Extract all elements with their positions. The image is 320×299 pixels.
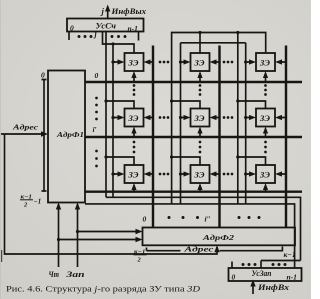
wire УсЗап top bus bbox=[261, 260, 301, 262]
svg-text:ЗЭ: ЗЭ bbox=[259, 57, 270, 67]
svg-text:ЗЭ: ЗЭ bbox=[193, 169, 204, 179]
svg-text:Зап: Зап bbox=[65, 270, 85, 279]
wire sense bus1 top with end corners bbox=[172, 33, 266, 204]
ellipsis dots row2 between columns bbox=[159, 116, 162, 119]
svg-text:0: 0 bbox=[41, 71, 45, 80]
svg-text:ЗЭ: ЗЭ bbox=[193, 57, 204, 67]
wire jog row2 col1 bbox=[106, 101, 134, 109]
bit line Y last from АдрФ2 bbox=[285, 46, 287, 228]
svg-text:i′: i′ bbox=[93, 125, 97, 134]
arrowheads into cell left edges bbox=[118, 59, 125, 176]
vertical ellipsis АдрФ1 outputs 2 bbox=[95, 150, 98, 153]
scan artifact left edge line bbox=[0, 0, 1, 299]
wire jog row3 col3 bbox=[238, 157, 266, 165]
bracket АдрФ2 outputs left segment bbox=[147, 248, 181, 251]
svg-text:ЗЭ: ЗЭ bbox=[259, 113, 270, 123]
junction dots left feeders row2 bbox=[111, 116, 114, 119]
wire sense j-line from УсСч down to collector A bbox=[105, 32, 107, 198]
svg-text:ЗЭ: ЗЭ bbox=[127, 113, 138, 123]
wire right arrow stems into cells bbox=[150, 62, 153, 174]
svg-text:n-1: n-1 bbox=[128, 24, 138, 33]
ellipsis dots row3 between columns bbox=[159, 173, 162, 176]
svg-text:Рис. 4.6. Структура j-го разря: Рис. 4.6. Структура j-го разряда ЗУ типа… bbox=[6, 284, 200, 293]
arrowhead Чт branch into АдрФ2 bbox=[136, 237, 143, 242]
word line Xi' from АдрФ1 bbox=[85, 136, 302, 138]
wire left arrow stems into cells bbox=[113, 62, 118, 174]
stub j over УсЗап bbox=[260, 261, 262, 269]
storage cell ЗЭ r1c3 bbox=[256, 53, 275, 71]
arrowhead ИнфВых bbox=[105, 5, 110, 12]
wire Адрес input to АдрФ1 and branch to АдрФ2 bbox=[0, 134, 217, 254]
arrow ИнфВх stem bbox=[252, 282, 254, 294]
vertical ellipsis between row1 and row2 bbox=[133, 84, 136, 87]
vertical ellipsis between row2 and row3 bbox=[133, 141, 136, 144]
wire collector A to УсЗап bbox=[106, 197, 301, 260]
storage cell ЗЭ r1c1 bbox=[125, 53, 144, 71]
bit line Yi'' from АдрФ2 bbox=[218, 46, 220, 228]
svg-text:−1: −1 bbox=[34, 198, 42, 206]
arrowheads into cell right edges bbox=[144, 59, 151, 176]
junction dots jogs row3 bbox=[104, 155, 107, 158]
ellipsis dots under УсСч bbox=[78, 35, 81, 38]
svg-text:УсСч: УсСч bbox=[96, 21, 117, 31]
word line X0 from АдрФ1 bbox=[85, 81, 302, 83]
arrowhead Зап branch into АдрФ2 bbox=[136, 229, 143, 234]
wire Чт branch to АдрФ2 bbox=[59, 239, 140, 241]
junction dots left feeders row1 bbox=[111, 60, 114, 63]
junction dots jogs row2 bbox=[104, 99, 107, 102]
svg-text:УсЗап: УсЗап bbox=[252, 269, 273, 278]
svg-text:ИнфВх: ИнфВх bbox=[257, 283, 289, 292]
wire jog row3 col2 bbox=[172, 157, 200, 165]
svg-text:0: 0 bbox=[95, 71, 99, 80]
svg-text:0: 0 bbox=[232, 273, 236, 282]
svg-text:к−1: к−1 bbox=[284, 250, 296, 259]
svg-text:2: 2 bbox=[23, 202, 28, 209]
svg-text:2: 2 bbox=[137, 257, 142, 264]
wire Зап stem to АдрФ1 bbox=[77, 204, 79, 267]
svg-text:Чт: Чт bbox=[49, 270, 60, 279]
wire collector B from АдрФ1 corner to УсЗап bbox=[85, 204, 295, 268]
stub 0 under УсСч bbox=[68, 32, 70, 41]
svg-text:Адрес: Адрес bbox=[12, 123, 39, 132]
arrowheads into cell bottoms row3 bbox=[131, 183, 268, 190]
wire bottom arrow stems into cells bbox=[134, 78, 266, 83]
svg-text:n-1: n-1 bbox=[287, 273, 297, 282]
box АдрФ1 bbox=[48, 71, 85, 203]
storage cell ЗЭ r2c2 bbox=[191, 109, 210, 127]
arrowhead ИнфВх bbox=[250, 280, 255, 287]
arrowheads into cell bottoms row1 bbox=[131, 71, 268, 78]
wire left feeder column 3 bbox=[245, 43, 247, 204]
svg-text:j: j bbox=[100, 6, 105, 16]
svg-text:ЗЭ: ЗЭ bbox=[127, 169, 138, 179]
storage cell ЗЭ r1c2 bbox=[191, 53, 210, 71]
storage cell ЗЭ r2c1 bbox=[125, 109, 144, 127]
arrowhead Адрес into АдрФ1 bbox=[41, 131, 48, 136]
ellipsis dots above УсЗап bbox=[242, 263, 245, 266]
ellipsis dots row1 between columns bbox=[159, 61, 162, 64]
wire sense bus2 top bbox=[181, 42, 246, 44]
wire jog row2 col2 bbox=[172, 101, 200, 109]
svg-text:Адрес: Адрес bbox=[183, 245, 215, 254]
box АдрФ2 bbox=[143, 228, 296, 246]
svg-text:ЗЭ: ЗЭ bbox=[127, 57, 138, 67]
svg-text:ИнфВых: ИнфВых bbox=[110, 7, 146, 16]
arrowhead Адрес into АдрФ2 bbox=[214, 245, 219, 252]
wire Чт stem to АдрФ1 bbox=[58, 204, 60, 267]
scan artifact left edge blob bbox=[0, 250, 2, 262]
junction dot feeder col1 top bbox=[111, 42, 114, 45]
vertical ellipsis АдрФ1 outputs 1 bbox=[95, 97, 98, 100]
box УсЗап bbox=[229, 268, 302, 281]
svg-text:ЗЭ: ЗЭ bbox=[193, 113, 204, 123]
box U-sense УсСч bbox=[67, 19, 144, 32]
word line X last from АдрФ1 bbox=[85, 190, 302, 192]
svg-text:ЗЭ: ЗЭ bbox=[259, 169, 270, 179]
arrowheads into cell bottoms row2 bbox=[131, 127, 268, 134]
bracket АдрФ1 outputs bbox=[42, 80, 47, 192]
junction dots left feeders row3 bbox=[111, 172, 114, 175]
storage cell ЗЭ r2c3 bbox=[256, 109, 275, 127]
wire jog row2 col3 bbox=[238, 101, 266, 109]
svg-text:0: 0 bbox=[70, 24, 74, 33]
junction dots on bus1 bbox=[198, 31, 201, 34]
wire sense descender mid bbox=[237, 33, 239, 204]
bit line Y0 from АдрФ2 bbox=[152, 46, 154, 228]
arrowhead Зап into АдрФ1 bbox=[75, 203, 80, 210]
wire jog row3 col1 bbox=[106, 157, 134, 165]
svg-text:АдрФ2: АдрФ2 bbox=[202, 233, 235, 242]
storage cell ЗЭ r3c2 bbox=[191, 165, 210, 183]
arrow ИнфВых stem bbox=[107, 8, 109, 19]
storage cell ЗЭ r3c1 bbox=[125, 165, 144, 183]
svg-text:0: 0 bbox=[143, 215, 147, 224]
svg-text:АдрФ1: АдрФ1 bbox=[56, 130, 84, 139]
wire jog from УсСч to cell r1c1 top bbox=[103, 32, 135, 54]
wire left feeder column 2 bbox=[180, 43, 182, 204]
stub 0 over УсЗап bbox=[231, 262, 233, 269]
bracket АдрФ2 outputs right segment bbox=[220, 247, 283, 251]
wire riser cell r1c2 top bbox=[199, 33, 201, 54]
arrowhead Чт into АдрФ1 bbox=[56, 203, 61, 210]
svg-text:i″: i″ bbox=[205, 215, 211, 224]
junction dots Чт Зап branches bbox=[57, 238, 60, 241]
wire left feeder column 1 bbox=[112, 44, 114, 197]
ellipsis dots above АдрФ2 bbox=[168, 216, 171, 219]
wire Зап branch to АдрФ2 bbox=[78, 231, 140, 233]
storage cell ЗЭ r3c3 bbox=[256, 165, 275, 183]
stub n-1 under УсСч bbox=[138, 32, 140, 41]
